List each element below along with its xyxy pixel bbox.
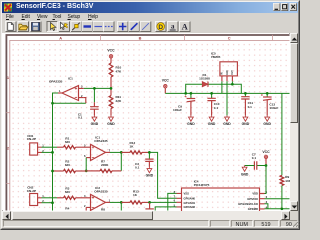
junction node A (feedback tee) [51, 102, 54, 105]
svg-text:GND: GND [187, 122, 195, 126]
wire: down to C1 [93, 88, 95, 102]
capacitor C11 [241, 93, 253, 115]
junction dot divider node [110, 87, 113, 90]
wire CN2 pin2 to rail [42, 202, 53, 204]
connector CN2 [27, 186, 45, 206]
svg-text:C: C [228, 35, 231, 40]
resistor R9 (pull-up) [280, 93, 292, 208]
wire IC5 gnd pin down [226, 81, 228, 115]
svg-text:PIC12F675: PIC12F675 [194, 183, 210, 187]
svg-text:B: B [139, 35, 142, 40]
svg-text:CN-2P: CN-2P [27, 189, 36, 193]
capacitor C10 [207, 93, 219, 115]
wire: IC1 -input feedback [84, 98, 86, 104]
wire diode branch [186, 84, 242, 93]
svg-text:GP2/AN2: GP2/AN2 [184, 205, 196, 209]
svg-text:GND: GND [107, 122, 115, 126]
wire IC1B output [110, 151, 121, 153]
svg-text:GND: GND [227, 70, 229, 75]
svg-text:VDD: VDD [252, 192, 258, 196]
wire VSS to ground (clipped) [168, 193, 177, 210]
junction dot output/feedback [120, 151, 123, 154]
junction dot R2/R7 node [85, 170, 88, 173]
svg-text:620: 620 [65, 140, 70, 144]
wire CN2 pin1 to R3 [42, 197, 58, 199]
resistor R1 [57, 136, 91, 148]
svg-text:GND: GND [208, 122, 216, 126]
wire: divider node to IC1 +input [84, 87, 111, 89]
svg-text:OPA2335: OPA2335 [94, 139, 108, 143]
junction dot IC5 out [231, 83, 234, 86]
resistor R11 [109, 88, 122, 115]
resistor R8 (labels only, clipped) [101, 208, 105, 212]
junction dot pin2/rail [51, 151, 54, 154]
svg-text:GND: GND [263, 122, 271, 126]
wire: long vertical reference rail [52, 103, 54, 210]
wire GP2 from below (clipped) [155, 207, 176, 211]
svg-text:1S1588: 1S1588 [199, 76, 210, 80]
svg-text:VSS: VSS [184, 192, 190, 196]
wire IC5 out pin [231, 81, 233, 84]
wire CN1 pin2 to rail [42, 151, 53, 153]
resistor R7 [86, 159, 121, 172]
svg-text:OUT: OUT [232, 70, 234, 75]
svg-text:D: D [158, 24, 163, 31]
svg-text:200K: 200K [101, 163, 109, 167]
svg-text:22K: 22K [116, 99, 122, 103]
svg-text:CN-2P: CN-2P [27, 137, 36, 141]
svg-text:0.1: 0.1 [78, 116, 83, 120]
svg-text:GND: GND [146, 174, 154, 178]
svg-text:OPA2335: OPA2335 [49, 80, 63, 84]
wire VDD feed [265, 166, 267, 194]
junction dot diode branch [184, 92, 187, 95]
svg-text:a: a [171, 22, 175, 30]
ground (C7) [241, 166, 249, 177]
junction dot C9 tap [190, 92, 193, 95]
svg-text:0.1: 0.1 [252, 156, 257, 160]
wire IC5 pin1 to rail [221, 81, 223, 93]
svg-text:78M05: 78M05 [211, 55, 221, 59]
wire GP4 jog [265, 204, 268, 209]
resistor R3 [57, 187, 91, 200]
svg-text:VCC: VCC [262, 150, 270, 154]
junction dot R2 on rail [51, 170, 54, 173]
svg-text:100uF: 100uF [173, 108, 182, 112]
node VCC (rail left end) [162, 79, 170, 94]
wire: bottom amp output to IC4 GP1 [150, 201, 177, 203]
svg-text:GP0/AN0: GP0/AN0 [184, 196, 196, 200]
svg-text:0.1: 0.1 [214, 106, 219, 110]
svg-text:VCC: VCC [107, 48, 115, 52]
sheet background [2, 33, 290, 211]
junction dot C1 tap [93, 87, 96, 90]
svg-text:IN: IN [222, 72, 224, 75]
svg-text:620: 620 [65, 163, 70, 167]
wire VCC rail [165, 92, 289, 94]
capacitor C7 [245, 153, 266, 170]
resistor R13 [121, 190, 149, 204]
svg-text:A: A [182, 22, 189, 32]
diode D1 [199, 73, 210, 87]
ground (under C3) [146, 167, 154, 178]
node VCC (IC4 VDD) [262, 150, 270, 166]
svg-text:GP1/AN1: GP1/AN1 [184, 201, 196, 205]
wire: IC1 output to left rail [53, 93, 59, 103]
junction dot MCLR [281, 207, 284, 210]
svg-text:620: 620 [65, 190, 70, 194]
wire IC2 output [110, 201, 121, 203]
capacitor C9 (electrolytic) [173, 93, 195, 115]
svg-text:0.1: 0.1 [248, 105, 253, 109]
op-amp IC1 unit B (middle) [84, 135, 111, 160]
capacitor C1 [78, 102, 99, 119]
svg-text:GND: GND [241, 172, 249, 176]
wire CN1 pin1 to R1 [42, 146, 58, 148]
svg-text:IC1: IC1 [68, 76, 73, 80]
wire: mid amp output to IC4 GP0 [149, 152, 176, 198]
junction dot R12/C3 [148, 151, 151, 154]
resistor R12 [121, 141, 149, 154]
resistor R4 (labels only, clipped) [65, 206, 70, 213]
svg-text:GND: GND [223, 122, 231, 126]
op-amp IC2 unit A (bottom) [84, 186, 111, 211]
svg-text:GND: GND [242, 122, 250, 126]
svg-text:0.1: 0.1 [135, 165, 140, 169]
resistor R10 [109, 63, 122, 88]
capacitor C3 [135, 152, 154, 169]
svg-text:OPA2335: OPA2335 [94, 189, 108, 193]
capacitor C13 (electrolytic) [261, 93, 279, 115]
resistor R2 [53, 159, 87, 172]
ground (IC5) [223, 115, 231, 126]
ground (under R11) [107, 115, 115, 126]
junction dot VDD node [265, 164, 268, 167]
sheet border frame [6, 35, 289, 211]
wire feedback loop [86, 152, 121, 171]
junction dot CN2 pin2 [51, 201, 54, 204]
svg-text:GND: GND [91, 122, 99, 126]
capacitor C5 (mostly clipped) [145, 202, 153, 209]
wire feedback (clipped below) [120, 202, 122, 210]
connector CN1 [27, 134, 45, 155]
ground (under C1) [91, 115, 99, 126]
wire GP3 / MCLR row [265, 208, 290, 210]
svg-text:47K: 47K [116, 69, 122, 73]
node VCC (R10 top) [107, 48, 115, 63]
svg-text:VCC: VCC [162, 79, 170, 83]
svg-text:GP4/AN3/CLKO: GP4/AN3/CLKO [238, 202, 258, 206]
microcontroller IC4 [174, 180, 268, 220]
junction dot IC2 out [120, 201, 123, 204]
svg-text:A: A [59, 35, 62, 40]
wire GP5 [265, 198, 290, 200]
regulator IC5 78M05 [211, 51, 238, 81]
op-amp IC1 unit A (left-pointing buffer) [49, 76, 84, 100]
svg-text:GP5/CKI: GP5/CKI [247, 197, 258, 201]
svg-text:100uF: 100uF [269, 106, 278, 110]
junction dot R13/C5 [148, 201, 151, 204]
